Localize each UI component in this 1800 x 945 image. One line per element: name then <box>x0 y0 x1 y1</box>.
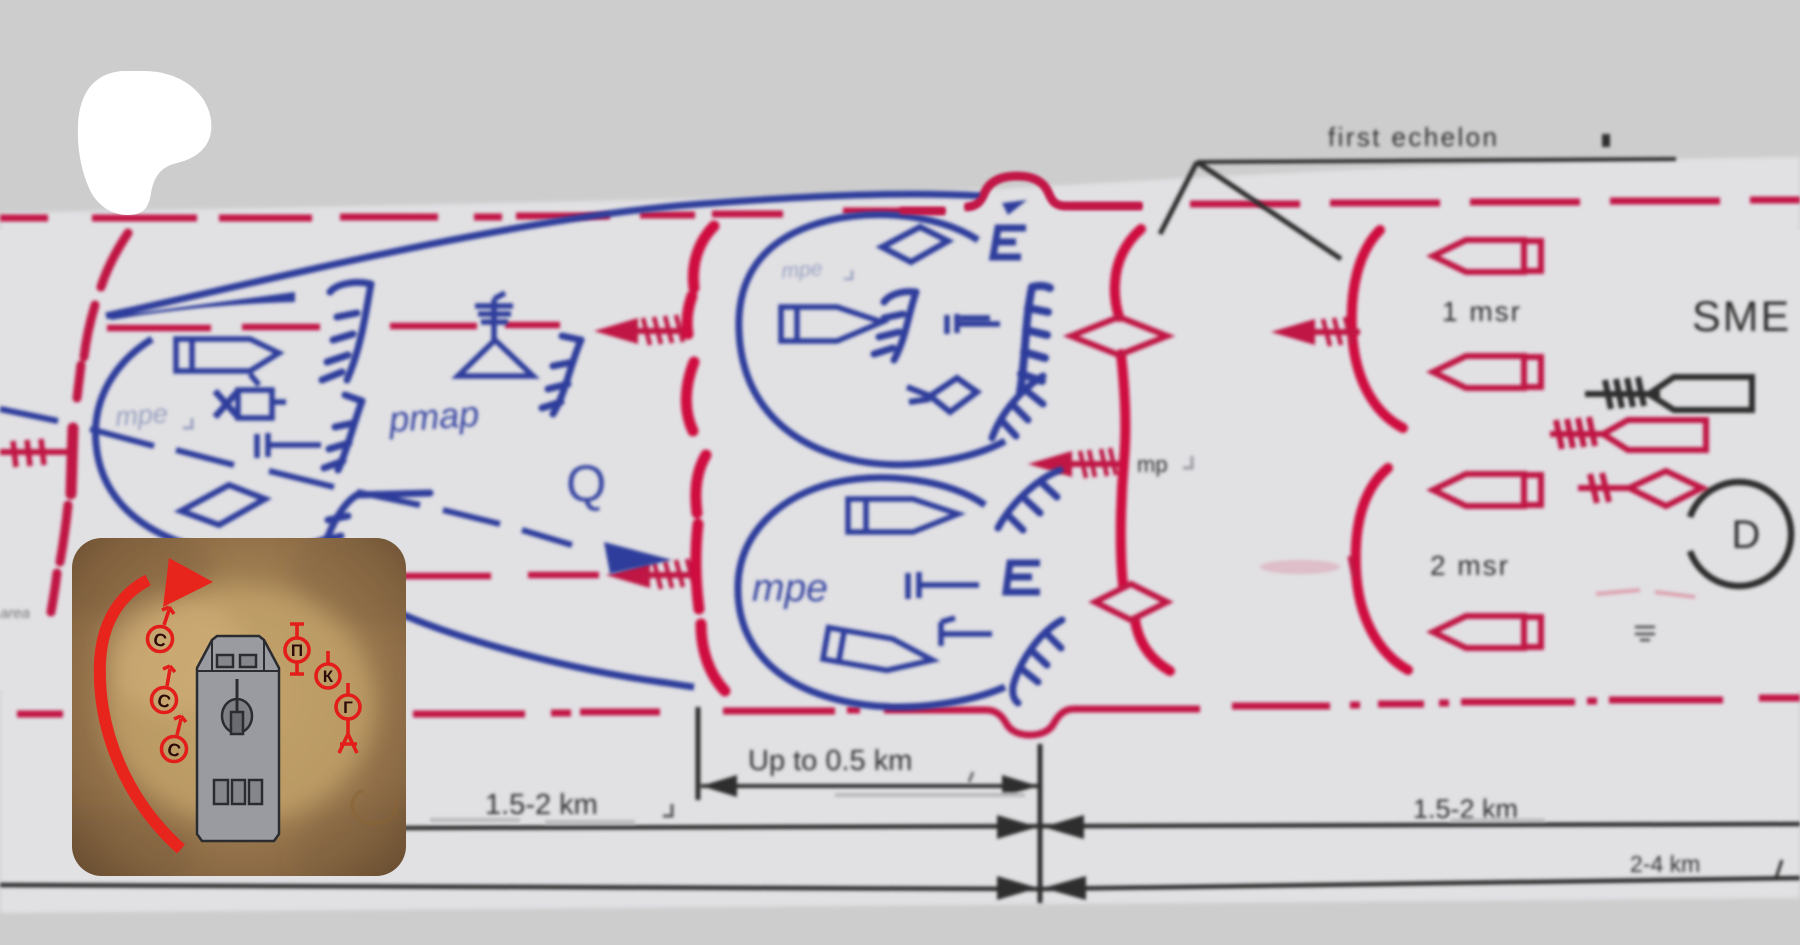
mortar bars <box>947 314 1000 334</box>
white patreon blob <box>78 71 212 215</box>
text annotations (less blur) <box>1137 122 1791 581</box>
red arrow head middle line <box>594 318 638 344</box>
black APC with ticks <box>1585 377 1752 410</box>
first echelon big brackets <box>1352 230 1408 670</box>
bowtie+square symbol <box>215 374 286 418</box>
svg-text:1 msr: 1 msr <box>1442 296 1522 327</box>
red bump over pass (drawn above blue) <box>900 176 1142 211</box>
red arrow 3 at top right bracket <box>1271 319 1315 345</box>
teeth arcs right of oval2 <box>998 470 1062 703</box>
red dashed arrow line 2 y~574 <box>401 575 599 576</box>
big blue swoosh line A (flank boundary top) <box>106 194 982 316</box>
svg-text:К: К <box>323 667 334 686</box>
big blue bottom curve <box>378 603 694 687</box>
trench next to APC <box>874 292 916 360</box>
mp arrow <box>1028 451 1072 477</box>
blue APC top oval <box>781 307 882 341</box>
E-dot letter <box>993 228 1026 257</box>
svg-text:mpe: mpe <box>781 257 823 283</box>
D circle <box>1690 482 1791 586</box>
tank top view <box>197 636 279 841</box>
top boundary red dashed line, left part <box>0 211 945 218</box>
diamond 1 on line <box>1071 317 1167 355</box>
svg-text:first echelon: first echelon <box>1328 122 1499 152</box>
svg-text:Q: Q <box>566 455 606 513</box>
blue APC bottom of oval2 (tilted) <box>823 628 935 678</box>
svg-text:П: П <box>291 641 303 660</box>
teeth arc right of oval1 <box>992 376 1043 438</box>
svg-text:mpe: mpe <box>114 398 168 432</box>
mortar bars symbol left <box>257 433 321 458</box>
red APC with ticks <box>1550 417 1706 450</box>
П К Г radio symbols <box>285 624 360 753</box>
blue APC top of oval2 <box>848 499 958 532</box>
top boundary bump (omega) over penetration point <box>965 176 1066 207</box>
trench T5 <box>357 493 430 495</box>
bottom boundary red dash-dot line <box>17 698 1800 714</box>
trench T1 <box>330 282 371 292</box>
blue line B (wedge lower stroke) <box>107 292 295 320</box>
E letter oval2 <box>1006 563 1040 592</box>
svg-text:mpe: mpe <box>752 567 828 610</box>
blue diamond left oval <box>181 485 265 525</box>
svg-text:pmap: pmap <box>387 393 481 440</box>
black pointer lines for first echelon <box>1160 159 1676 259</box>
mortar bars oval2 <box>908 572 979 599</box>
svg-text:area: area <box>0 605 30 622</box>
svg-text:mp: mp <box>1137 452 1168 477</box>
red arrow with ticks entering at left edge y=452 <box>0 439 74 467</box>
dimension lines <box>0 605 1800 903</box>
left company oval (open right) <box>95 339 331 552</box>
circled C's with small arrows <box>148 607 187 762</box>
svg-text:Up to 0.5 km: Up to 0.5 km <box>748 745 912 777</box>
E trench big right <box>1020 286 1050 392</box>
svg-text:SME: SME <box>1692 293 1791 341</box>
red smudges <box>1260 560 1340 574</box>
svg-text:2-4 km: 2-4 km <box>1630 851 1700 877</box>
red scalloped FEBA line x~675-730 <box>686 226 725 691</box>
observation post triangle with mast <box>458 293 533 376</box>
red APC symbols column <box>1433 240 1541 648</box>
svg-text:D: D <box>1732 513 1761 557</box>
diamond 2 on line <box>1095 584 1167 620</box>
blue APC left oval <box>176 339 279 371</box>
trench T4 <box>338 401 362 470</box>
middle red dashed line y~327 with left arrow <box>107 325 560 328</box>
top boundary red dashed line, right part <box>1064 200 1800 206</box>
red dashed column curve upper-left <box>51 233 128 612</box>
diamond with spikes <box>907 378 977 412</box>
bottom boundary bump (down) <box>988 709 1072 735</box>
blue diamond top <box>882 227 948 262</box>
small flag symbol <box>941 618 992 646</box>
arrowheads dimension <box>701 775 737 797</box>
svg-text:Г: Г <box>343 698 353 717</box>
battalion deployment scalloped line x~1110-1170 <box>1115 229 1170 671</box>
scanned map sheet <box>0 157 1800 913</box>
red arrow inset <box>100 580 181 849</box>
blue dashed advance line with arrow <box>0 409 572 545</box>
svg-text:2 msr: 2 msr <box>1430 550 1510 581</box>
trench symbols column x~330-375 <box>314 282 581 560</box>
svg-text:1.5-2 km: 1.5-2 km <box>485 789 598 821</box>
trench T2 right of pmap <box>553 340 581 414</box>
red diamond with ticks <box>1578 471 1702 506</box>
